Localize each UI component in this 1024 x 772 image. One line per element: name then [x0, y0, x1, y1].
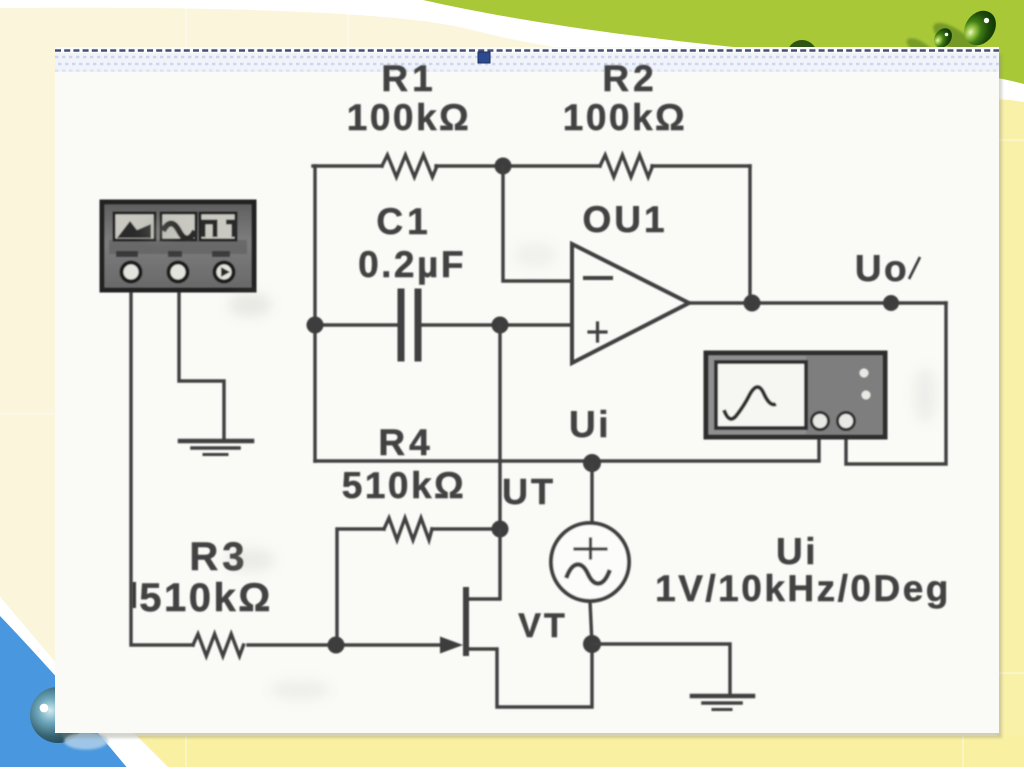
node Ui top: [583, 454, 601, 472]
resistor R3: [193, 634, 244, 656]
blue corner white stripe: [0, 585, 185, 772]
wire op-amp output: [689, 301, 946, 304]
schematic content group: [131, 155, 946, 710]
wire VT gate: [336, 643, 441, 646]
source Ui circle: [551, 523, 629, 601]
svg-text:100kΩ: 100kΩ: [347, 97, 471, 138]
resistor R4: [337, 529, 500, 645]
bottom yellow band: [0, 736, 1024, 767]
blue corner shape: [0, 616, 156, 772]
node left rail cap: [307, 317, 324, 334]
wire right vertical from R2: [748, 166, 751, 303]
right yellow column: [997, 100, 1024, 767]
ground under XFG: [180, 439, 252, 444]
instrument oscilloscope: [706, 353, 885, 437]
svg-text:Ui: Ui: [569, 404, 611, 445]
svg-text:510kΩ: 510kΩ: [139, 576, 273, 620]
svg-text:R2: R2: [602, 58, 657, 99]
selection handle: [478, 52, 490, 63]
svg-text:R4: R4: [378, 422, 433, 463]
svg-text:Ui: Ui: [776, 531, 818, 572]
wire Uo down to scope: [846, 303, 946, 464]
white swoosh stripe under green: [0, 0, 1024, 102]
wire XFG left terminal long: [131, 281, 336, 645]
selection dashed border: [55, 49, 999, 52]
svg-text:VT: VT: [518, 607, 567, 645]
gate arrow: [440, 637, 463, 654]
svg-text:OU1: OU1: [582, 199, 667, 240]
svg-text:100kΩ: 100kΩ: [563, 97, 687, 138]
scan haze blobs: [142, 220, 937, 700]
wire vertical B: [498, 325, 501, 529]
resistor R2: [600, 155, 653, 177]
node cap to plus input: [492, 317, 509, 334]
droplet shadow big: [928, 17, 985, 66]
selection hatch rows: [55, 53, 999, 72]
node output: [744, 295, 761, 312]
node junction R1-R2: [495, 158, 512, 175]
white stripe right of blue: [98, 733, 196, 772]
svg-text:Uo: Uo: [855, 248, 909, 289]
instrument XFG function generator: [102, 202, 254, 290]
green droplet small: [930, 25, 955, 51]
label R3 leading artifact: [132, 582, 136, 608]
capacitor C1: [401, 292, 418, 358]
svg-text:1V/10kHz/0Deg: 1V/10kHz/0Deg: [655, 568, 951, 609]
wire Ui source bottom: [590, 601, 592, 644]
label Uo slash artifact: [909, 257, 920, 279]
wire capacitor right: [421, 323, 572, 326]
blue droplet: [30, 687, 86, 743]
node R4 right: [492, 521, 509, 538]
wire to ground right: [592, 644, 730, 695]
node Ui bottom: [583, 635, 601, 653]
green droplet big: [958, 5, 1003, 52]
wire Ui source top: [590, 463, 593, 523]
droplet shadow small: [903, 34, 941, 66]
resistor R1: [382, 155, 437, 177]
transistor VT channel: [463, 590, 469, 653]
wire left rail: [313, 166, 316, 461]
wire VT source lead: [466, 644, 592, 707]
green swoosh: [423, 0, 1024, 84]
svg-text:C1: C1: [376, 201, 431, 242]
svg-text:UT: UT: [502, 471, 556, 512]
wire capacitor left: [315, 323, 398, 326]
ground bottom right: [692, 694, 753, 699]
wire XFG middle terminal: [179, 281, 224, 438]
svg-text:510kΩ: 510kΩ: [342, 465, 466, 506]
node Uo: [883, 295, 899, 311]
wire inverting input: [503, 166, 572, 281]
node R3 VT gate: [328, 637, 345, 654]
wire top horizontal: [313, 164, 750, 167]
wire mid horizontal: [315, 430, 819, 461]
wire R4 node to VT drain: [468, 529, 500, 599]
green droplet peeking above schematic edge: [787, 40, 817, 70]
svg-text:0.2µF: 0.2µF: [358, 244, 466, 285]
svg-text:R1: R1: [381, 58, 436, 99]
op-amp U1: [572, 244, 689, 363]
